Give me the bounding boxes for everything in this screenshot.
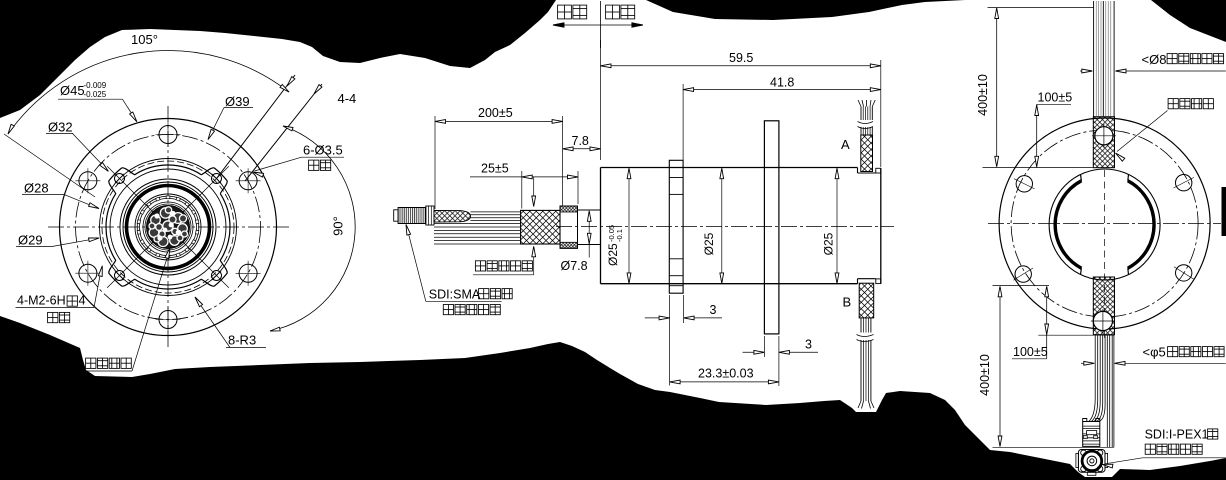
- svg-text:200±5: 200±5: [478, 106, 513, 120]
- svg-text:3: 3: [805, 338, 812, 352]
- svg-text:Ø39: Ø39: [225, 94, 250, 109]
- svg-text:41.8: 41.8: [770, 76, 794, 90]
- svg-text:Ø45: Ø45: [60, 83, 85, 98]
- svg-text:Ø29: Ø29: [18, 233, 43, 248]
- svg-text:100±5: 100±5: [1038, 90, 1073, 104]
- svg-text:Ø32: Ø32: [48, 120, 73, 135]
- svg-text:-0.1: -0.1: [615, 229, 624, 242]
- svg-text:-0.025: -0.025: [84, 90, 107, 99]
- svg-text:SDI:I-PEX1: SDI:I-PEX1: [1145, 427, 1209, 441]
- svg-text:Ø28: Ø28: [24, 181, 49, 196]
- svg-text:105°: 105°: [131, 32, 158, 47]
- svg-text:B: B: [843, 295, 852, 310]
- svg-text:Ø7.8: Ø7.8: [561, 259, 588, 273]
- svg-text:Ø25: Ø25: [702, 232, 716, 255]
- svg-text:400±10: 400±10: [976, 74, 990, 116]
- svg-text:A: A: [841, 137, 850, 152]
- svg-text:4-M2-6H: 4-M2-6H: [17, 294, 66, 308]
- svg-text:Ø25: Ø25: [606, 243, 620, 266]
- svg-text:8-R3: 8-R3: [228, 333, 256, 348]
- svg-text:SDI:SMA: SDI:SMA: [429, 288, 481, 302]
- svg-text:6-Ø3.5: 6-Ø3.5: [303, 143, 343, 158]
- svg-text:-0.009: -0.009: [84, 81, 107, 90]
- svg-text:59.5: 59.5: [729, 51, 753, 65]
- svg-text:23.3±0.03: 23.3±0.03: [698, 367, 754, 381]
- svg-text:Ø25: Ø25: [822, 232, 836, 255]
- svg-text:7.8: 7.8: [572, 134, 589, 148]
- svg-text:4: 4: [79, 294, 86, 308]
- svg-text:25±5: 25±5: [481, 162, 509, 176]
- svg-text:<Ø8: <Ø8: [1142, 52, 1167, 67]
- svg-text:100±5: 100±5: [1013, 345, 1048, 359]
- svg-text:4-4: 4-4: [338, 91, 357, 106]
- svg-text:400±10: 400±10: [978, 354, 992, 396]
- svg-text:90°: 90°: [331, 216, 346, 236]
- svg-text:3: 3: [710, 303, 717, 317]
- svg-text:<φ5: <φ5: [1143, 345, 1166, 360]
